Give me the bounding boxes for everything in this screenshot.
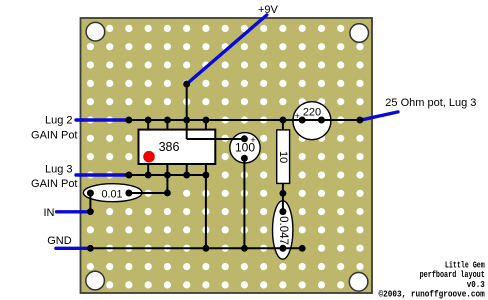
svg-text:0.047: 0.047	[277, 216, 289, 245]
svg-text:386: 386	[159, 140, 180, 154]
svg-text:GAIN Pot: GAIN Pot	[31, 178, 77, 190]
svg-text:IN: IN	[44, 207, 55, 219]
svg-text:+: +	[250, 135, 255, 145]
svg-text:+9V: +9V	[258, 4, 279, 16]
svg-text:10: 10	[277, 151, 289, 163]
svg-text:Lug 2: Lug 2	[45, 115, 73, 127]
svg-text:25 Ohm pot, Lug 3: 25 Ohm pot, Lug 3	[385, 97, 476, 109]
svg-text:220: 220	[303, 107, 321, 119]
svg-text:0.01: 0.01	[101, 188, 122, 200]
svg-text:Lug 3: Lug 3	[45, 163, 73, 175]
svg-text:©2003, runoffgroove.com: ©2003, runoffgroove.com	[379, 289, 486, 300]
svg-text:GAIN Pot: GAIN Pot	[31, 130, 77, 142]
svg-text:GND: GND	[47, 235, 72, 247]
